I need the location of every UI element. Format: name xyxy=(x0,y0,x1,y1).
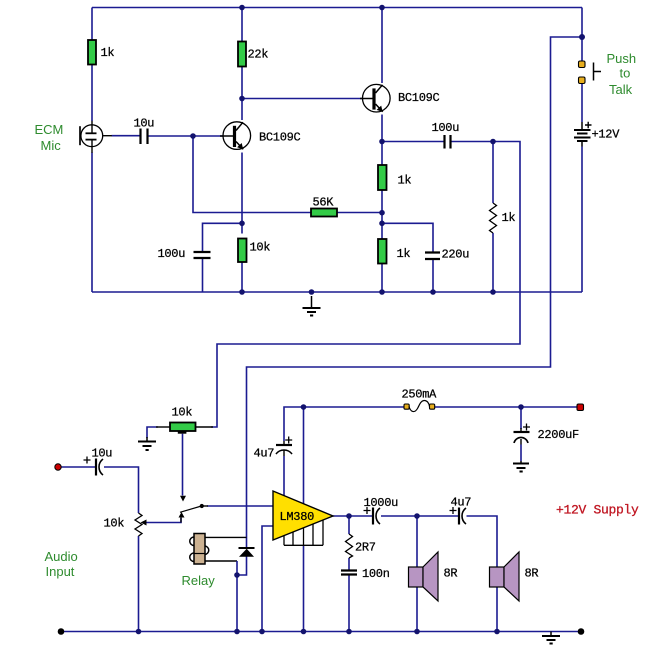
wire 1000u to speaker1 xyxy=(381,515,458,517)
node 220u junction xyxy=(379,221,385,227)
relay coil xyxy=(190,534,209,565)
node Q1 emitter 100u xyxy=(239,221,245,227)
wire pot bottom to ground rail xyxy=(138,536,140,632)
wire output node to 100u coupling cap xyxy=(382,141,444,143)
resistor 1k mic feed xyxy=(88,40,96,65)
svg-text:2R7: 2R7 xyxy=(355,541,376,555)
node 56K junction xyxy=(379,210,385,216)
node 22k top rail xyxy=(239,5,245,11)
resistor 1k Q2 emitter lower xyxy=(378,239,387,264)
node Q2 collector top rail xyxy=(379,5,385,11)
svg-text:LM380: LM380 xyxy=(280,510,315,524)
resistor 2R7 zigzag xyxy=(346,534,353,558)
wire 10u cap to Q1 base xyxy=(148,135,223,137)
wire audio input to 10u xyxy=(61,466,95,468)
node ground rail LM380 pins xyxy=(301,629,307,635)
wire supply rail right segment xyxy=(435,406,578,408)
wire 100n to ground rail xyxy=(348,575,350,632)
wire left rail upper xyxy=(91,8,93,41)
wire 10k ground stub xyxy=(147,427,158,438)
wire Q1 collector xyxy=(241,99,243,121)
wire speaker1 drop xyxy=(416,516,418,567)
svg-text:10k: 10k xyxy=(104,517,125,531)
wire 10k tap to switch xyxy=(182,434,184,496)
node supply rail V+ xyxy=(301,404,307,410)
node rail 220u xyxy=(430,289,436,295)
capacitor 10u audio input xyxy=(84,457,104,476)
op-amp LM380 xyxy=(273,491,333,545)
svg-text:100n: 100n xyxy=(362,567,390,581)
wire Q2 emitter down to output node xyxy=(381,115,383,166)
svg-text:+12V: +12V xyxy=(592,128,621,142)
wire Q1 emitter down xyxy=(241,153,243,234)
node rail load xyxy=(490,289,496,295)
wire line A preamp out to volume pot xyxy=(211,142,520,428)
terminal ground rail right black xyxy=(578,628,585,635)
capacitor 1000u output xyxy=(364,507,381,525)
wire mic to 10u cap xyxy=(112,135,141,137)
node ground rail speaker1 xyxy=(414,629,420,635)
transistor Q1 BC109C xyxy=(220,122,251,150)
svg-text:Input: Input xyxy=(46,564,75,579)
node preamp output load xyxy=(490,139,496,145)
resistor 56K feedback xyxy=(311,209,337,217)
potentiometer 10k zigzag xyxy=(135,513,147,536)
svg-text:8R: 8R xyxy=(525,567,539,581)
svg-text:Mic: Mic xyxy=(41,138,62,153)
wire 10k bottom to rail xyxy=(241,262,243,292)
wire bottom rail of preamp xyxy=(92,291,582,293)
capacitor 100u output coupling xyxy=(445,135,451,149)
svg-text:8R: 8R xyxy=(444,567,458,581)
wire left rail between R1 and mic xyxy=(91,65,93,122)
wire 2200uF drop xyxy=(520,407,522,429)
node rail ground xyxy=(309,289,315,295)
svg-text:BC109C: BC109C xyxy=(398,91,440,105)
wire emitter resistor bottom to rail xyxy=(381,264,383,293)
node ground rail LM380 input xyxy=(259,629,265,635)
wire feedback drop from base node xyxy=(193,136,311,213)
wire speaker2 to ground rail xyxy=(496,587,498,632)
svg-text:Audio: Audio xyxy=(45,549,78,564)
capacitor 220u xyxy=(425,253,440,260)
svg-text:10k: 10k xyxy=(172,406,193,420)
terminal audio input red xyxy=(55,464,61,470)
wire 2200uF to ground xyxy=(520,445,522,462)
wire PTT to battery xyxy=(581,83,583,122)
wire load resistor bottom xyxy=(492,233,494,292)
svg-text:ECM: ECM xyxy=(35,122,64,137)
svg-text:BC109C: BC109C xyxy=(259,131,301,145)
wire ground rail bottom xyxy=(61,631,581,633)
svg-text:250mA: 250mA xyxy=(402,388,438,402)
terminal ground rail left black xyxy=(58,628,65,635)
wire left rail below mic xyxy=(91,153,93,293)
svg-text:10k: 10k xyxy=(250,241,271,255)
capacitor 2200uF xyxy=(514,424,531,445)
wire zobel branch xyxy=(348,516,350,534)
wire 100u cap to load node xyxy=(451,141,493,143)
node speaker1 branch xyxy=(414,513,420,519)
svg-text:10u: 10u xyxy=(134,117,155,131)
svg-text:1k: 1k xyxy=(502,211,516,225)
node rail 10k xyxy=(239,289,245,295)
wire line B switched 12V to relay xyxy=(247,37,583,548)
wire relay node to ground rail xyxy=(236,575,238,632)
wire diode to relay bottom node xyxy=(237,557,247,576)
ground rail right xyxy=(542,632,560,644)
transistor Q2 BC109C xyxy=(360,84,390,112)
wire supply rail left segment xyxy=(284,407,404,441)
wire V+ drop to LM380 xyxy=(303,407,305,504)
wire Q1 emitter to 100u branch xyxy=(203,223,243,252)
wire 4u7 to speaker2 xyxy=(467,516,498,567)
wire 100u bottom to rail xyxy=(202,258,204,292)
svg-text:Relay: Relay xyxy=(182,573,216,588)
svg-text:1000u: 1000u xyxy=(364,496,399,510)
node ground rail 100n xyxy=(346,629,352,635)
speaker 8R left xyxy=(409,552,439,601)
wire 56K to Q2 emitter node xyxy=(337,212,382,214)
ground preamp rail xyxy=(303,296,321,316)
ECM microphone xyxy=(80,121,112,153)
wire 220u branch xyxy=(382,223,433,252)
svg-text:Talk: Talk xyxy=(609,82,633,97)
wire LM380 output xyxy=(333,515,372,517)
wire switch common to LM380 input xyxy=(207,505,273,507)
node ground rail relay xyxy=(234,629,240,635)
svg-text:1k: 1k xyxy=(398,174,412,188)
wire 22k top xyxy=(241,8,243,42)
wire 10u to pot xyxy=(104,467,139,513)
resistor 10k tap xyxy=(170,423,196,432)
wire relay coil top xyxy=(205,536,247,538)
svg-text:1k: 1k xyxy=(101,46,115,60)
wire 220u bottom to rail xyxy=(432,259,434,292)
ground 2200uF xyxy=(513,461,529,472)
wire speaker1 to ground rail xyxy=(416,587,418,632)
wire top rail xyxy=(92,7,582,9)
node ground rail speaker2 xyxy=(494,629,500,635)
wire LM380 minus input to ground xyxy=(262,526,273,632)
node ground rail pot xyxy=(136,629,142,635)
switch SPDT xyxy=(179,496,209,523)
resistor 22k xyxy=(238,42,246,67)
svg-text:100u: 100u xyxy=(158,247,186,261)
ground 10k left xyxy=(138,437,156,450)
capacitor 100u Q1 emitter bypass xyxy=(194,252,211,258)
wire pot wiper to switch xyxy=(146,518,181,523)
wire Q2 collector to top rail xyxy=(381,8,383,84)
svg-text:1k: 1k xyxy=(397,247,411,261)
node Q1 collector xyxy=(239,96,245,102)
capacitor 100n xyxy=(341,571,357,575)
svg-text:2200uF: 2200uF xyxy=(538,428,580,442)
wire 2R7 to 100n xyxy=(348,558,350,570)
wire emitter resistor chain xyxy=(381,190,383,239)
svg-text:220u: 220u xyxy=(442,248,470,262)
wire LM380 ground pins to rail xyxy=(303,546,305,632)
resistor 10k Q1 emitter xyxy=(238,239,247,263)
wire battery to bottom rail xyxy=(581,147,583,293)
terminal +12V red square xyxy=(577,404,584,411)
capacitor 10u coupling xyxy=(141,129,148,145)
node LM380 output xyxy=(346,513,352,519)
capacitor 4u7 bypass xyxy=(276,437,292,457)
svg-text:4u7: 4u7 xyxy=(451,496,472,510)
svg-text:10u: 10u xyxy=(92,447,113,461)
fuse 250mA xyxy=(404,400,435,411)
node Q1 base xyxy=(190,133,196,139)
svg-text:22k: 22k xyxy=(248,48,269,62)
svg-text:100u: 100u xyxy=(432,121,460,135)
wire load resistor top xyxy=(492,142,494,204)
wire right rail top drop to PTT xyxy=(581,8,583,62)
node supply rail 2200uF xyxy=(518,404,524,410)
svg-text:+12V Supply: +12V Supply xyxy=(556,503,639,518)
node Q2 emitter output xyxy=(379,139,385,145)
svg-text:56K: 56K xyxy=(313,196,335,210)
wire Q1 collector node to Q2 base xyxy=(242,98,363,100)
svg-text:to: to xyxy=(620,66,631,81)
node switched supply branch xyxy=(579,34,585,40)
battery +12V xyxy=(574,122,592,147)
wire 4u7 bypass to LM380 xyxy=(283,456,285,496)
speaker 8R right xyxy=(490,552,520,601)
resistor 1k Q2 emitter upper xyxy=(378,165,387,190)
push to talk switch xyxy=(579,61,602,84)
node rail Q2 emitter xyxy=(379,289,385,295)
capacitor 4u7 speaker2 xyxy=(450,507,467,525)
node relay bottom xyxy=(234,572,240,578)
diode flyback xyxy=(239,548,255,557)
wire relay coil bottom xyxy=(205,560,237,562)
resistor 1k load zigzag xyxy=(490,203,497,233)
wire 22k bottom to Q1 collector node xyxy=(241,67,243,99)
svg-text:4u7: 4u7 xyxy=(254,447,275,461)
svg-text:Push: Push xyxy=(607,51,637,66)
